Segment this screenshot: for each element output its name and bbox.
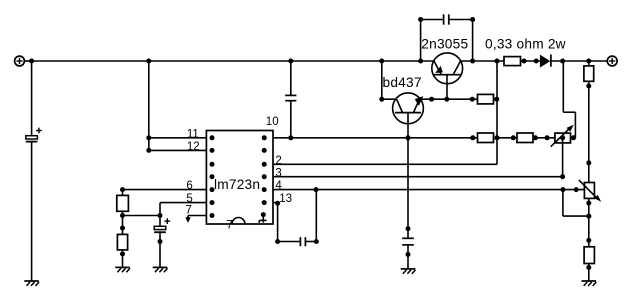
wire: bd437 emitter to 2n3055 base xyxy=(419,98,477,100)
IC pin dots left xyxy=(210,135,215,140)
junction rail/bypass cap xyxy=(288,59,293,64)
IC U1 lm723n xyxy=(206,131,273,225)
svg-text:bd437: bd437 xyxy=(383,75,422,90)
potentiometer output divider xyxy=(584,183,594,199)
IC internal mark bottom right xyxy=(261,212,266,217)
wire: pin13 comp xyxy=(273,202,278,204)
svg-text:10: 10 xyxy=(266,116,279,128)
wire: x148 supply branch down xyxy=(148,61,150,150)
resistor output top right xyxy=(588,61,590,66)
capacitor electrolytic input xyxy=(31,61,33,136)
capacitor bypass x291 xyxy=(290,61,292,95)
wire: pin6 to divider xyxy=(123,189,207,191)
wire: to pin5 cap xyxy=(123,215,161,217)
wire: pin2 current limit xyxy=(273,163,497,165)
ground left divider xyxy=(115,266,130,268)
diode D1 xyxy=(540,55,550,68)
wire: pin4 feedback xyxy=(273,189,584,191)
svg-text:0,33 ohm 2w: 0,33 ohm 2w xyxy=(485,37,566,52)
resistor 2n3055 b-e xyxy=(478,94,494,104)
svg-text:12: 12 xyxy=(187,141,200,153)
ground input cap xyxy=(24,280,39,282)
transistor Q2 bd437 xyxy=(393,93,424,124)
output terminal + xyxy=(607,56,617,66)
junction output/right column xyxy=(586,59,591,64)
svg-text:2n3055: 2n3055 xyxy=(421,37,468,52)
capacitor base net to ground x408 xyxy=(407,138,409,239)
junction diode cathode/adjust branch xyxy=(560,59,565,64)
svg-text:lm723n: lm723n xyxy=(214,177,260,192)
wire: to x497 xyxy=(494,98,498,100)
junction rail/input cap xyxy=(29,59,34,64)
svg-text:11: 11 xyxy=(187,128,199,140)
wire: pin4 elbow down xyxy=(562,190,564,217)
pin dot xyxy=(534,59,539,64)
junction rail/IC supply branch xyxy=(146,59,151,64)
wire: rail right segments to output xyxy=(461,60,505,62)
wire: pot to bottom resistor xyxy=(588,198,590,246)
rheostat voltage adjust xyxy=(555,133,571,143)
resistor base net 1 xyxy=(478,133,494,143)
junction emitter/x497 xyxy=(495,59,500,64)
svg-text:7: 7 xyxy=(226,220,232,232)
wire: adjust branch from diode xyxy=(562,61,564,112)
wire: pin12 xyxy=(149,149,207,151)
svg-text:2: 2 xyxy=(275,155,281,167)
resistor 0.33 ohm xyxy=(504,57,521,66)
wire: pin5 elbow xyxy=(160,202,206,204)
svg-text:3: 3 xyxy=(275,168,281,180)
ground bottom right xyxy=(582,280,597,282)
junction emitter/snubber xyxy=(470,59,475,64)
resistor divider lower left xyxy=(117,234,127,250)
wire: pin3 to wiper xyxy=(273,176,563,178)
junction rail/snubber cap xyxy=(418,59,423,64)
IC bottom notch arc xyxy=(232,218,245,224)
capacitor electrolytic pin5 xyxy=(159,216,161,227)
transistor Q1 2n3055 xyxy=(432,53,463,84)
IC pin dots right xyxy=(262,135,267,140)
capacitor comp pin13-pin4 xyxy=(299,237,301,246)
capacitor snubber over 2n3055 xyxy=(420,20,422,62)
ground x408 xyxy=(401,268,416,270)
wire: pin10 base drive net xyxy=(273,137,478,139)
resistor divider bottom right xyxy=(584,247,594,264)
wire: top supply rail xyxy=(32,60,435,62)
resistor base net 2 xyxy=(517,133,533,143)
input terminal + xyxy=(15,56,25,66)
wire: bd437 collector xyxy=(381,61,383,99)
pin dot xyxy=(522,59,527,64)
resistor divider upper left xyxy=(122,190,124,196)
wire: pin7 ground arrow xyxy=(188,215,206,217)
junction rail/bd437 collector xyxy=(379,59,384,64)
wire: x497 current-limit branch xyxy=(496,61,498,164)
ground pin5 cap xyxy=(153,266,168,268)
svg-text:13: 13 xyxy=(279,193,292,205)
wire: pin11 xyxy=(149,137,207,139)
